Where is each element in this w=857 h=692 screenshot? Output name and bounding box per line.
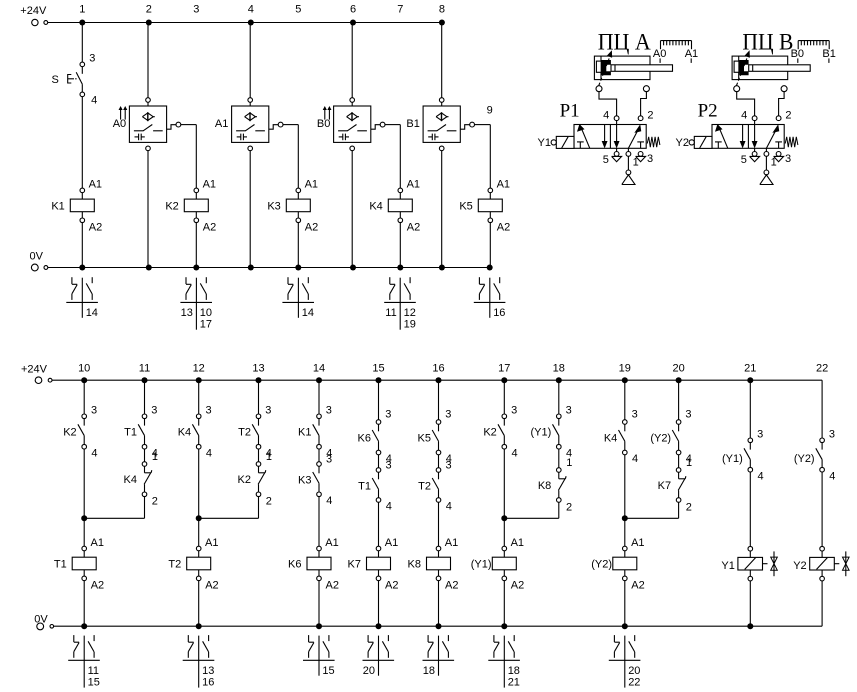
svg-text:K5: K5: [418, 432, 431, 444]
svg-text:A2: A2: [89, 222, 102, 234]
svg-text:A1: A1: [89, 179, 102, 191]
svg-text:P1: P1: [560, 101, 580, 122]
svg-text:A2: A2: [205, 580, 218, 592]
svg-text:10: 10: [78, 362, 90, 374]
svg-text:Y1: Y1: [721, 560, 734, 572]
svg-text:4: 4: [248, 4, 254, 16]
svg-text:1: 1: [79, 4, 85, 16]
svg-text:A2: A2: [326, 580, 339, 592]
svg-text:11: 11: [88, 665, 99, 677]
svg-text:P2: P2: [698, 101, 718, 122]
svg-text:16: 16: [432, 362, 444, 374]
svg-text:14: 14: [302, 307, 314, 319]
svg-text:16: 16: [493, 307, 505, 319]
svg-text:16: 16: [202, 677, 214, 689]
svg-text:1: 1: [566, 457, 572, 469]
svg-text:17: 17: [498, 362, 510, 374]
svg-text:T2: T2: [418, 480, 431, 492]
svg-text:K2: K2: [238, 474, 251, 486]
svg-text:A1: A1: [407, 179, 420, 191]
svg-text:S: S: [52, 74, 59, 86]
svg-text:1: 1: [771, 157, 777, 169]
svg-text:3: 3: [829, 429, 835, 441]
svg-text:14: 14: [313, 362, 325, 374]
svg-text:1: 1: [152, 451, 158, 463]
svg-text:A2: A2: [407, 222, 420, 234]
svg-text:A2: A2: [305, 222, 318, 234]
svg-text:5: 5: [741, 154, 747, 166]
svg-text:3: 3: [326, 454, 332, 466]
svg-text:7: 7: [397, 4, 403, 16]
svg-text:K7: K7: [658, 480, 671, 492]
svg-text:B1: B1: [406, 118, 419, 130]
svg-text:13: 13: [252, 362, 264, 374]
svg-text:3: 3: [326, 405, 332, 417]
svg-text:K2: K2: [63, 427, 76, 439]
svg-text:3: 3: [265, 405, 271, 417]
svg-text:12: 12: [193, 362, 205, 374]
svg-text:21: 21: [744, 362, 756, 374]
svg-text:9: 9: [487, 105, 493, 117]
svg-text:4: 4: [386, 501, 392, 513]
svg-text:19: 19: [404, 319, 416, 331]
svg-text:4: 4: [512, 447, 518, 459]
svg-text:21: 21: [508, 677, 520, 689]
svg-text:4: 4: [446, 501, 452, 513]
svg-text:4: 4: [603, 110, 609, 122]
svg-text:K3: K3: [267, 201, 280, 213]
svg-text:K4: K4: [604, 432, 617, 444]
svg-text:3: 3: [386, 460, 392, 472]
svg-text:1: 1: [686, 457, 692, 469]
svg-text:0V: 0V: [30, 251, 44, 263]
svg-text:A2: A2: [385, 580, 398, 592]
svg-text:4: 4: [326, 495, 332, 507]
svg-text:14: 14: [86, 307, 98, 319]
svg-text:B0: B0: [317, 118, 330, 130]
svg-text:11: 11: [139, 362, 150, 374]
svg-text:A1: A1: [631, 537, 644, 549]
svg-text:A1: A1: [497, 179, 510, 191]
svg-text:(Y2): (Y2): [650, 432, 671, 444]
svg-text:20: 20: [672, 362, 684, 374]
svg-text:K4: K4: [369, 201, 382, 213]
svg-text:1: 1: [633, 157, 639, 169]
svg-text:19: 19: [619, 362, 631, 374]
svg-text:2: 2: [152, 496, 158, 508]
svg-text:T2: T2: [238, 427, 251, 439]
svg-text:K6: K6: [288, 559, 301, 571]
svg-text:4: 4: [91, 447, 97, 459]
svg-text:1: 1: [266, 451, 272, 463]
svg-text:T1: T1: [358, 480, 371, 492]
svg-text:4: 4: [829, 470, 835, 482]
svg-text:10: 10: [200, 307, 212, 319]
svg-text:13: 13: [202, 665, 214, 677]
svg-text:A1: A1: [305, 179, 318, 191]
svg-text:3: 3: [385, 409, 391, 421]
svg-text:T1: T1: [124, 427, 137, 439]
svg-text:2: 2: [266, 496, 272, 508]
svg-text:13: 13: [181, 307, 193, 319]
svg-text:12: 12: [404, 307, 416, 319]
svg-text:A2: A2: [91, 580, 104, 592]
svg-text:Y2: Y2: [793, 560, 806, 572]
svg-text:15: 15: [372, 362, 384, 374]
svg-text:A1: A1: [215, 118, 228, 130]
svg-text:A2: A2: [631, 580, 644, 592]
svg-text:3: 3: [89, 52, 95, 64]
svg-text:A2: A2: [497, 222, 510, 234]
svg-text:A0: A0: [113, 118, 126, 130]
svg-text:+24V: +24V: [20, 5, 47, 17]
svg-text:4: 4: [91, 95, 97, 107]
svg-text:15: 15: [88, 677, 100, 689]
svg-text:A1: A1: [511, 537, 524, 549]
svg-text:Y2: Y2: [676, 137, 689, 149]
svg-text:K1: K1: [51, 201, 64, 213]
svg-text:3: 3: [632, 409, 638, 421]
svg-text:22: 22: [816, 362, 828, 374]
svg-text:18: 18: [553, 362, 565, 374]
svg-text:3: 3: [151, 405, 157, 417]
svg-text:(Y1): (Y1): [531, 427, 552, 439]
svg-text:20: 20: [628, 665, 640, 677]
svg-text:A1: A1: [91, 537, 104, 549]
svg-text:2: 2: [146, 4, 152, 16]
svg-text:A1: A1: [325, 537, 338, 549]
svg-text:K5: K5: [459, 201, 472, 213]
svg-text:A1: A1: [203, 179, 216, 191]
svg-text:3: 3: [91, 405, 97, 417]
svg-text:T1: T1: [54, 559, 67, 571]
svg-text:K8: K8: [408, 559, 421, 571]
svg-text:4: 4: [758, 470, 764, 482]
svg-text:22: 22: [628, 677, 640, 689]
svg-text:4: 4: [206, 447, 212, 459]
svg-text:6: 6: [350, 4, 356, 16]
svg-text:(Y2): (Y2): [794, 453, 815, 465]
svg-text:K4: K4: [124, 474, 137, 486]
svg-text:(Y1): (Y1): [722, 453, 743, 465]
svg-text:(Y1): (Y1): [471, 559, 492, 571]
svg-text:3: 3: [511, 405, 517, 417]
svg-text:15: 15: [322, 665, 334, 677]
svg-text:ПЦ А: ПЦ А: [598, 29, 652, 55]
svg-text:18: 18: [423, 665, 435, 677]
svg-text:4: 4: [632, 453, 638, 465]
svg-text:K6: K6: [358, 432, 371, 444]
svg-text:K2: K2: [483, 427, 496, 439]
svg-text:K2: K2: [165, 201, 178, 213]
svg-text:A2: A2: [511, 580, 524, 592]
svg-text:(Y2): (Y2): [591, 559, 612, 571]
svg-text:2: 2: [785, 110, 791, 122]
svg-text:5: 5: [603, 154, 609, 166]
svg-text:20: 20: [363, 665, 375, 677]
svg-text:3: 3: [785, 153, 791, 165]
svg-text:3: 3: [445, 409, 451, 421]
svg-text:K4: K4: [178, 427, 191, 439]
svg-text:2: 2: [647, 110, 653, 122]
svg-text:17: 17: [200, 319, 212, 331]
svg-text:3: 3: [206, 405, 212, 417]
svg-text:A1: A1: [445, 537, 458, 549]
svg-text:18: 18: [508, 665, 520, 677]
svg-text:ПЦ В: ПЦ В: [742, 28, 793, 54]
svg-text:3: 3: [193, 4, 199, 16]
svg-text:2: 2: [566, 501, 572, 513]
svg-text:A1: A1: [205, 537, 218, 549]
svg-text:A1: A1: [385, 537, 398, 549]
svg-text:4: 4: [741, 110, 747, 122]
svg-text:2: 2: [686, 501, 692, 513]
svg-text:K3: K3: [298, 474, 311, 486]
svg-text:11: 11: [385, 307, 396, 319]
svg-text:A2: A2: [445, 580, 458, 592]
svg-text:K7: K7: [348, 559, 361, 571]
svg-text:+24V: +24V: [21, 363, 48, 375]
svg-text:3: 3: [446, 460, 452, 472]
svg-text:3: 3: [566, 405, 572, 417]
svg-text:A2: A2: [203, 222, 216, 234]
svg-text:5: 5: [295, 4, 301, 16]
svg-text:3: 3: [685, 409, 691, 421]
svg-text:3: 3: [647, 153, 653, 165]
svg-text:Y1: Y1: [538, 137, 551, 149]
svg-text:K1: K1: [298, 427, 311, 439]
svg-text:K8: K8: [538, 480, 551, 492]
svg-text:8: 8: [439, 4, 445, 16]
svg-text:3: 3: [757, 429, 763, 441]
svg-text:T2: T2: [168, 559, 181, 571]
